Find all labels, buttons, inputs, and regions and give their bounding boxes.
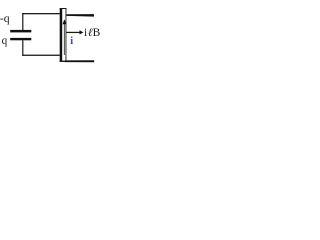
svg-text:i: i [70,35,73,47]
svg-text:iℓB: iℓB [84,27,101,39]
svg-text:q: q [2,35,8,47]
svg-text:-q: -q [0,12,10,25]
